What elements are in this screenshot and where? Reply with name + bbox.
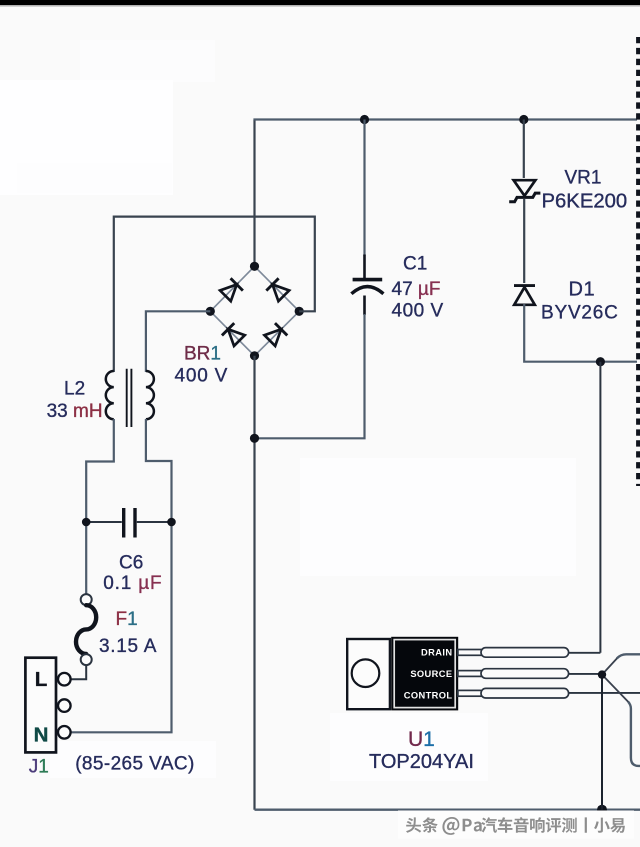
- svg-text:L2: L2: [64, 379, 85, 400]
- bridge BR1 edge bottom-right: [255, 311, 300, 356]
- capacitor C1 bottom lead: [363, 296, 366, 316]
- U1 control pin: [458, 688, 569, 698]
- watermark text: [406, 817, 625, 835]
- wire: C1 branch from top rail: [363, 120, 365, 257]
- svg-text:0.1 µF: 0.1 µF: [103, 573, 162, 594]
- node: drain junction on D1-transformer wire: [596, 357, 605, 366]
- wire: drain pin to drain vertical: [569, 652, 601, 654]
- svg-text:BYV26C: BYV26C: [541, 303, 619, 324]
- node: bridge left: [206, 307, 215, 316]
- bridge BR1 edge top-right: [255, 266, 300, 311]
- transistor U1 body: [391, 637, 458, 711]
- capacitor C1 curved plate: [351, 287, 383, 294]
- wire: F1 to L terminal: [71, 665, 86, 679]
- wire: source node down to bottom rail: [601, 675, 603, 810]
- node: C6 left junction: [82, 518, 91, 527]
- bridge BR1 edge top-left: [210, 266, 254, 311]
- wire: L2 left winding down jog to C6 left: [86, 419, 114, 595]
- node: bottom rail / source junction: [597, 805, 607, 815]
- node: bridge bottom / C1 return junction: [250, 434, 259, 443]
- inductor L2 left winding: [106, 371, 114, 419]
- svg-text:47 µF: 47 µF: [392, 279, 441, 300]
- diode D1 cathode bar: [514, 284, 535, 287]
- capacitor C6 left wire: [86, 521, 122, 523]
- svg-text:400 V: 400 V: [392, 301, 444, 322]
- wire: source node diagonal down, down and out right edge: [602, 675, 630, 704]
- wire: VR1 branch from top rail: [523, 120, 525, 179]
- svg-text:3.15 A: 3.15 A: [99, 636, 157, 657]
- capacitor C6 right wire: [137, 521, 172, 523]
- bridge diode top-left: [219, 278, 243, 302]
- node: bridge right: [295, 307, 304, 316]
- transistor U1 mounting hole: [352, 659, 380, 687]
- terminal circle N: [58, 726, 71, 739]
- bridge diode top-right: [266, 278, 290, 302]
- bridge diode bottom-right: [264, 323, 288, 347]
- inductor L2 right winding: [146, 371, 154, 419]
- connector J1 box: [25, 658, 56, 753]
- svg-text:33 mH: 33 mH: [47, 401, 103, 422]
- wire: control pin to right edge: [569, 692, 640, 694]
- terminal circle L: [58, 673, 71, 686]
- wire: bridge top node up to top rail corner: [253, 120, 255, 266]
- terminal circle middle: [58, 699, 71, 712]
- wire: drain vertical down to U1 drain pin: [599, 362, 601, 653]
- svg-text:D1: D1: [569, 278, 596, 300]
- fuse F1 element: [76, 605, 96, 654]
- wire: bottom rail: [255, 809, 640, 811]
- diode D1 triangle: [514, 287, 535, 305]
- inductor L2 core lines: [127, 369, 132, 427]
- transistor U1 TO-220 tab: [347, 639, 390, 709]
- svg-text:BR1: BR1: [184, 343, 221, 364]
- svg-text:SOURCE: SOURCE: [410, 669, 452, 679]
- fuse F1 bottom terminal circle: [81, 654, 92, 665]
- svg-text:CONTROL: CONTROL: [404, 691, 453, 701]
- svg-text:F1: F1: [116, 609, 138, 630]
- U1 drain pin: [458, 648, 569, 658]
- wire: D1 down and right to transformer: [524, 304, 637, 362]
- U1 source pin: [458, 669, 569, 679]
- zener VR1 cathode bar with hooks: [509, 193, 540, 202]
- wire: L2 right winding down jog to C6 right and N terminal: [71, 419, 172, 732]
- transistor U1 body inner white frame: [394, 640, 455, 708]
- svg-text:VR1: VR1: [565, 167, 602, 188]
- node: C6 right junction: [167, 518, 176, 527]
- node: bridge bottom: [250, 351, 259, 360]
- capacitor C1 top plate: [353, 278, 383, 282]
- wire: bridge bottom down to bottom rail: [253, 356, 255, 810]
- svg-text:TOP204YAI: TOP204YAI: [369, 751, 474, 773]
- watermark background strip: [398, 811, 634, 839]
- node: top rail / VR1 junction: [519, 115, 528, 124]
- svg-text:(85-265 VAC): (85-265 VAC): [75, 754, 195, 775]
- svg-text:L: L: [35, 668, 48, 691]
- bridge diode bottom-left: [222, 323, 246, 347]
- svg-text:J1: J1: [29, 757, 49, 778]
- svg-text:U1: U1: [408, 728, 435, 751]
- svg-text:C1: C1: [403, 254, 427, 275]
- svg-text:N: N: [34, 723, 49, 746]
- wire: source pin to source node: [569, 673, 602, 675]
- wire: bridge left node to L2 right winding: [146, 311, 210, 372]
- fuse F1 top terminal circle: [81, 594, 92, 605]
- zener VR1 triangle: [514, 180, 536, 196]
- svg-text:DRAIN: DRAIN: [421, 648, 452, 658]
- bridge BR1 edge bottom-left: [210, 311, 254, 356]
- svg-text:400 V: 400 V: [175, 366, 229, 387]
- wire: VR1 to D1: [523, 199, 525, 283]
- node: top rail / C1 junction: [360, 115, 369, 124]
- wire: C1 bottom to bridge bottom junction: [255, 314, 365, 438]
- node: bridge top: [250, 262, 259, 271]
- wire: bridge right node up over to L2 left winding: [114, 217, 315, 372]
- wire: source node diagonal up to right edge: [602, 656, 619, 674]
- top black border bar: [0, 0, 640, 5]
- node: source junction: [598, 670, 606, 678]
- transformer T1 core dashed line: [636, 37, 640, 486]
- wire: top rail from corner to transformer: [253, 118, 637, 120]
- svg-text:C6: C6: [119, 553, 143, 574]
- background watermark patch upper-left: [0, 40, 576, 781]
- svg-text:P6KE200: P6KE200: [542, 191, 628, 213]
- capacitor C1 top lead: [363, 255, 366, 279]
- capacitor C6 plates: [124, 508, 135, 538]
